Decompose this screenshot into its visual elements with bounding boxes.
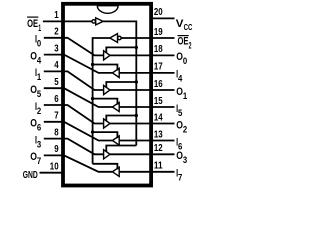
svg-text:1: 1	[183, 91, 187, 101]
svg-text:15: 15	[154, 95, 163, 107]
svg-text:5: 5	[37, 89, 41, 99]
svg-text:6: 6	[37, 123, 41, 133]
svg-text:OE: OE	[27, 18, 38, 30]
svg-text:11: 11	[154, 160, 163, 172]
svg-text:4: 4	[178, 74, 182, 84]
svg-text:1: 1	[37, 72, 41, 82]
svg-text:4: 4	[54, 59, 59, 71]
svg-text:6: 6	[54, 93, 59, 105]
svg-text:GND: GND	[23, 170, 38, 181]
svg-text:4: 4	[37, 55, 41, 65]
svg-text:CC: CC	[184, 22, 193, 32]
svg-text:7: 7	[37, 156, 41, 166]
svg-text:16: 16	[154, 78, 163, 90]
svg-text:13: 13	[154, 128, 163, 140]
svg-text:OE: OE	[178, 36, 189, 48]
svg-text:10: 10	[50, 161, 59, 173]
svg-text:3: 3	[37, 139, 41, 149]
svg-text:8: 8	[54, 126, 59, 138]
svg-text:1: 1	[54, 9, 59, 21]
svg-text:19: 19	[154, 26, 163, 38]
svg-text:12: 12	[154, 142, 163, 154]
svg-text:0: 0	[37, 39, 41, 49]
svg-text:2: 2	[54, 26, 59, 38]
svg-text:7: 7	[178, 173, 182, 183]
svg-text:3: 3	[183, 155, 187, 165]
svg-text:17: 17	[154, 61, 163, 73]
svg-text:2: 2	[183, 124, 187, 134]
svg-text:9: 9	[54, 143, 59, 155]
svg-text:5: 5	[178, 108, 182, 118]
svg-text:2: 2	[37, 106, 41, 116]
svg-text:7: 7	[54, 110, 59, 122]
svg-text:18: 18	[154, 43, 163, 55]
svg-text:0: 0	[183, 56, 187, 66]
svg-text:2: 2	[189, 40, 192, 50]
svg-text:14: 14	[154, 111, 163, 123]
svg-text:3: 3	[54, 42, 59, 54]
svg-text:20: 20	[154, 6, 163, 18]
svg-text:1: 1	[38, 23, 41, 33]
svg-text:5: 5	[54, 76, 59, 88]
